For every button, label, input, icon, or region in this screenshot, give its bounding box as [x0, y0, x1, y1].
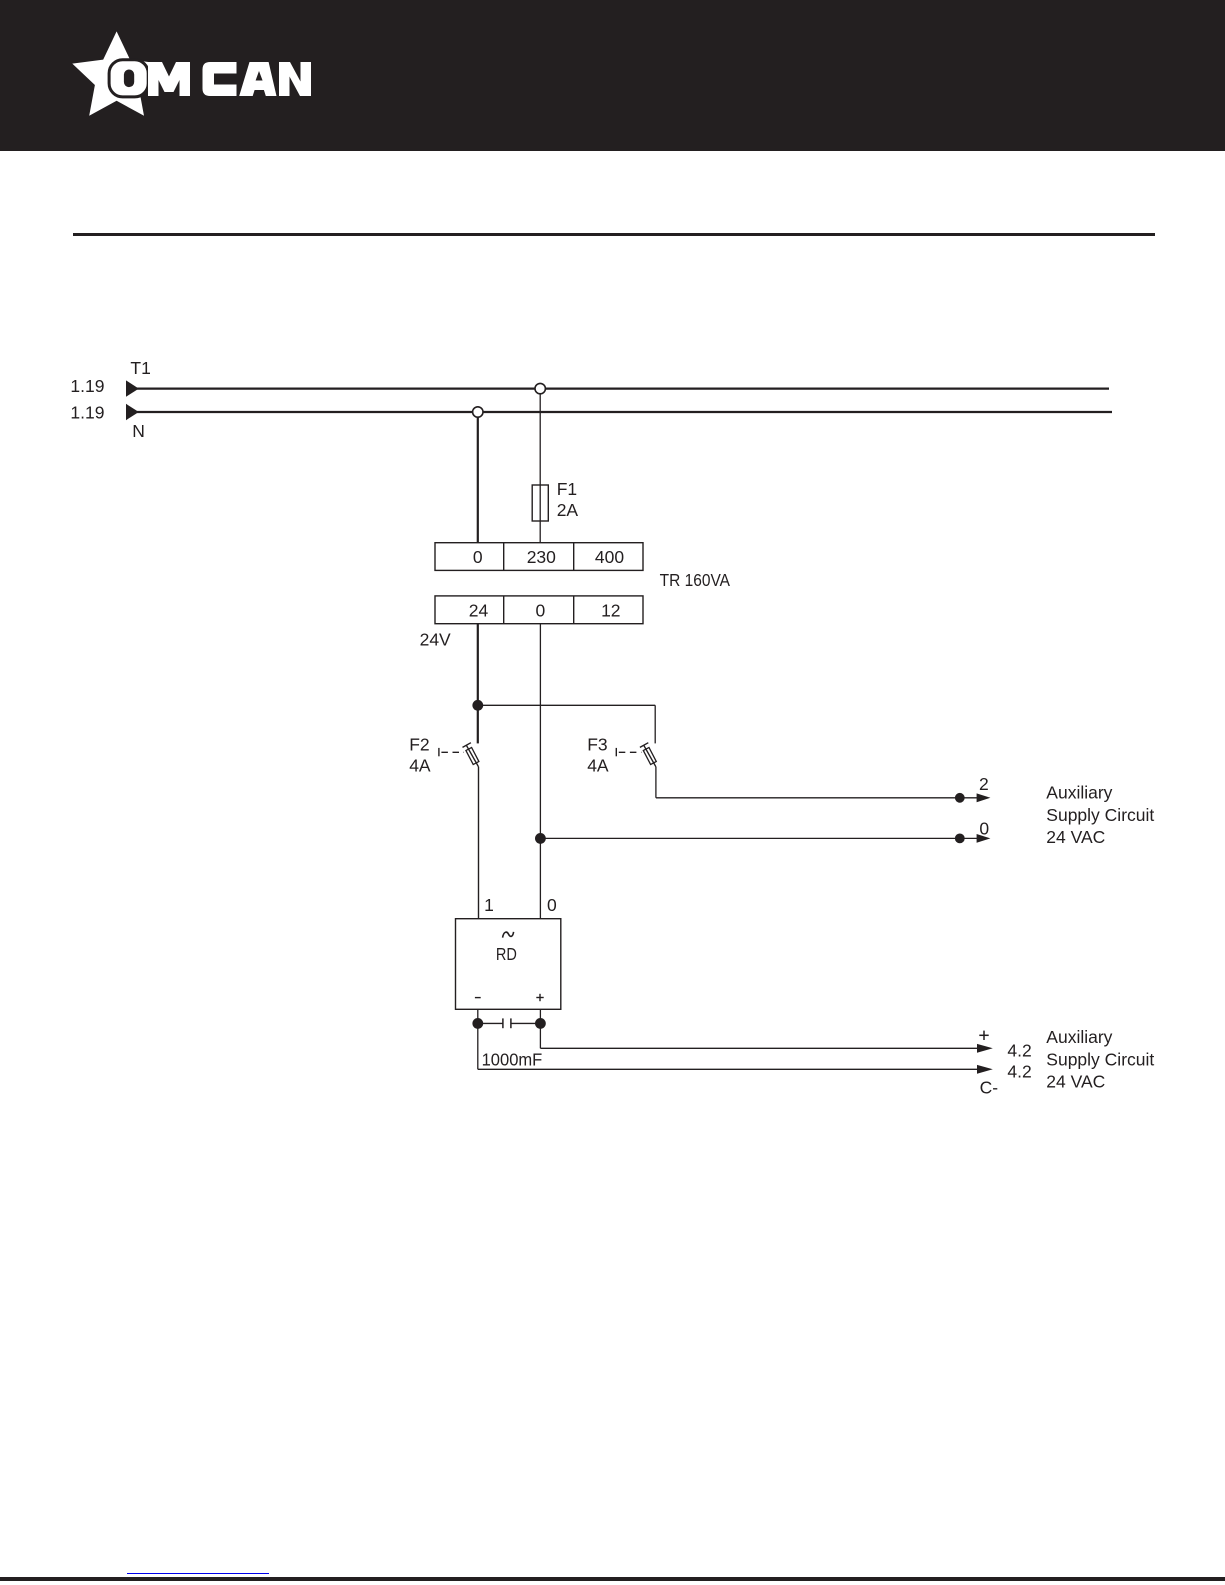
transformer TR primary box	[435, 543, 643, 571]
header black bar	[0, 0, 1225, 151]
wire aux supply 0	[540, 837, 978, 839]
svg-text:C-: C-	[980, 1077, 999, 1097]
wire N node to transformer 0	[477, 417, 479, 543]
wire rectifier minus down	[477, 1009, 479, 1069]
svg-text:0: 0	[547, 895, 557, 915]
svg-text:24 VAC: 24 VAC	[1046, 1072, 1105, 1092]
node aux 0	[955, 834, 965, 844]
footer link line	[127, 1573, 270, 1575]
fuse switch F2	[439, 705, 479, 767]
logo letter C	[203, 62, 237, 96]
node capacitor minus	[472, 1018, 483, 1029]
svg-text:400: 400	[595, 547, 624, 567]
wire rail T1	[137, 388, 1109, 390]
wire DC plus output	[540, 1047, 979, 1049]
svg-text:0: 0	[979, 819, 989, 839]
plus label sign	[979, 1034, 988, 1036]
svg-text:0: 0	[473, 547, 483, 567]
svg-text:T1: T1	[130, 358, 150, 378]
wire F3 down	[655, 767, 657, 798]
svg-text:2: 2	[979, 774, 989, 794]
wire F3 branch vertical	[654, 705, 656, 743]
rectifier minus sign	[475, 997, 481, 999]
node aux 2	[955, 793, 965, 803]
svg-text:TR 160VA: TR 160VA	[660, 570, 731, 590]
label rectifier tilde	[503, 932, 514, 938]
svg-text:F2: F2	[409, 735, 429, 755]
wire rectifier plus down	[539, 1009, 541, 1048]
wire 24V output down	[477, 624, 479, 706]
arrow DC minus	[977, 1065, 993, 1074]
wire 0 output down to rectifier	[539, 624, 541, 919]
transformer TR secondary box	[435, 596, 643, 624]
junction node 24V	[472, 700, 483, 711]
node capacitor plus	[535, 1018, 546, 1029]
svg-text:Auxiliary: Auxiliary	[1046, 1027, 1112, 1047]
svg-text:Auxiliary: Auxiliary	[1046, 783, 1112, 803]
logo star	[72, 31, 161, 115]
svg-text:230: 230	[527, 547, 556, 567]
svg-text:4A: 4A	[409, 755, 431, 775]
svg-text:1.19: 1.19	[70, 376, 104, 396]
capacitor C1 1000mF	[478, 1018, 541, 1028]
arrow DC plus	[977, 1044, 993, 1053]
svg-text:1000mF: 1000mF	[482, 1050, 543, 1070]
svg-text:1.19: 1.19	[70, 403, 104, 423]
header rule	[73, 233, 1154, 236]
junction node 0	[535, 833, 546, 844]
wire F2 to rectifier	[478, 767, 480, 919]
logo letter O	[109, 60, 148, 97]
svg-text:24: 24	[469, 600, 489, 620]
arrow rail N	[126, 404, 139, 420]
rectifier plus sign	[536, 997, 543, 999]
wire junction to F3 branch horizontal	[478, 704, 655, 706]
svg-text:4A: 4A	[587, 755, 609, 775]
logo letter N	[279, 62, 311, 96]
node on N rail	[473, 407, 483, 417]
footer bar	[0, 1577, 1225, 1581]
arrow aux 0	[977, 834, 991, 843]
wire DC minus output	[478, 1068, 979, 1070]
svg-text:F3: F3	[587, 735, 607, 755]
svg-text:12: 12	[601, 600, 620, 620]
svg-text:Supply Circuit: Supply Circuit	[1046, 805, 1154, 825]
svg-text:1: 1	[484, 895, 494, 915]
svg-text:4.2: 4.2	[1007, 1040, 1031, 1060]
wire rail N	[137, 411, 1112, 413]
rectifier RD box	[456, 919, 561, 1010]
node on T1 rail	[535, 383, 545, 393]
svg-text:N: N	[132, 421, 145, 441]
wire aux supply 2	[656, 797, 978, 799]
fuse F1	[532, 485, 548, 521]
svg-text:0: 0	[536, 600, 546, 620]
logo letter M	[148, 62, 190, 96]
svg-text:4.2: 4.2	[1007, 1062, 1031, 1082]
svg-text:RD: RD	[496, 944, 517, 964]
arrow aux 2	[977, 793, 991, 802]
arrow rail T1	[126, 380, 139, 396]
svg-text:2A: 2A	[557, 500, 579, 520]
svg-text:Supply Circuit: Supply Circuit	[1046, 1049, 1154, 1069]
svg-text:F1: F1	[557, 479, 577, 499]
fuse switch F3	[616, 743, 656, 767]
svg-text:24 VAC: 24 VAC	[1046, 827, 1105, 847]
OMCAN logo	[0, 0, 360, 151]
logo letter A	[239, 62, 276, 96]
wire T1 node to transformer 230	[539, 394, 541, 543]
svg-text:24V: 24V	[420, 630, 451, 650]
